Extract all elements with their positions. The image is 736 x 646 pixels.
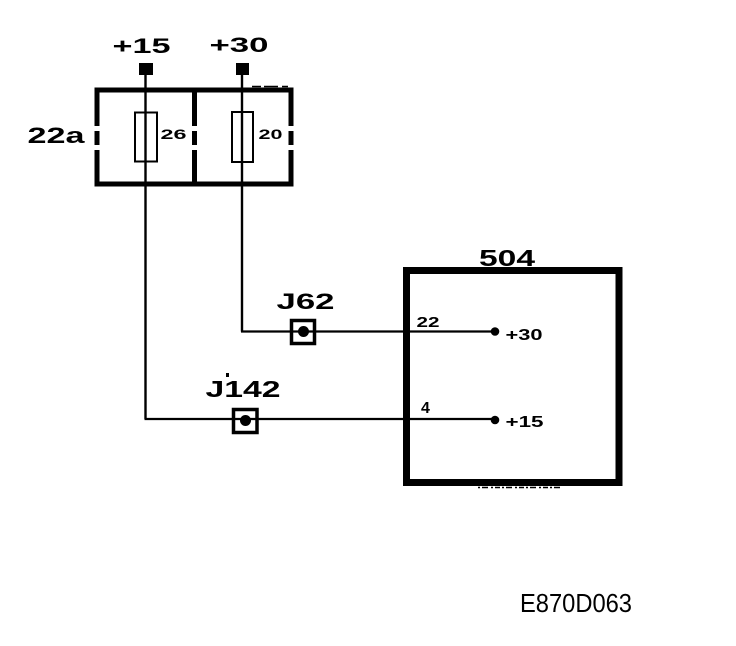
svg-text:22: 22: [417, 314, 440, 331]
unit 504 label: [479, 245, 535, 271]
pin number 22: [417, 314, 440, 331]
connector J142 label: [206, 376, 281, 402]
connector J142 junction dot: [240, 415, 251, 426]
svg-text:E870D063: E870D063: [520, 588, 632, 618]
fuse box 22a left edge (dashed): [95, 88, 100, 186]
connector J62 junction dot: [298, 326, 309, 337]
connector J142 square: [234, 410, 258, 433]
fuse value label 20: [259, 126, 283, 142]
fuse box 22a right edge (dashed): [289, 88, 294, 186]
fuse box 22a scan roughening on top edge right part: [252, 86, 291, 88]
wire +15 vertical from terminal through fuse 26 down to J142 row: [144, 74, 146, 419]
fuse F20 body: [232, 112, 253, 162]
svg-text:22a: 22a: [28, 123, 86, 148]
fuse box 22a middle divider (dashed): [192, 88, 197, 186]
fuse F26 body: [135, 113, 157, 162]
fuse box 22a outline bottom edge: [95, 182, 294, 187]
svg-text:+30: +30: [210, 34, 269, 57]
fuse box 22a outline top edge: [95, 88, 294, 93]
pin 4 node dot: [491, 416, 500, 425]
svg-text:20: 20: [259, 126, 283, 142]
connector J62 label: [277, 289, 335, 314]
pin 4 net label +15: [506, 414, 544, 431]
svg-text:J142: J142: [206, 376, 281, 402]
connector J62 square: [292, 321, 315, 344]
pin 22 node dot: [491, 327, 500, 336]
svg-text:+30: +30: [506, 327, 543, 344]
unit 504 scan roughening under bottom edge: [478, 487, 562, 489]
fuse box label 22a: [28, 123, 86, 148]
terminal +15 square: [139, 63, 153, 75]
wire J142 horizontal run to pin 4 dot: [145, 418, 496, 420]
fuse value label 26: [161, 126, 187, 142]
pin 22 net label +30: [506, 327, 543, 344]
svg-text:26: 26: [161, 126, 187, 142]
terminal +30 label: [210, 34, 269, 57]
drawing number E870D063: [520, 588, 632, 618]
unit 504 box: [407, 271, 620, 483]
pin number 4: [421, 400, 430, 417]
terminal +30 square: [236, 63, 249, 75]
svg-text:4: 4: [421, 400, 430, 417]
connector J142 scan speck above label: [226, 373, 229, 377]
svg-text:J62: J62: [277, 289, 335, 314]
terminal +15 label: [113, 35, 172, 58]
svg-text:+15: +15: [506, 414, 544, 431]
wire +30 vertical from terminal through fuse 20 down to J62 row: [241, 74, 243, 332]
wire J62 horizontal run to pin 22 dot: [241, 330, 495, 332]
svg-text:+15: +15: [113, 35, 172, 58]
